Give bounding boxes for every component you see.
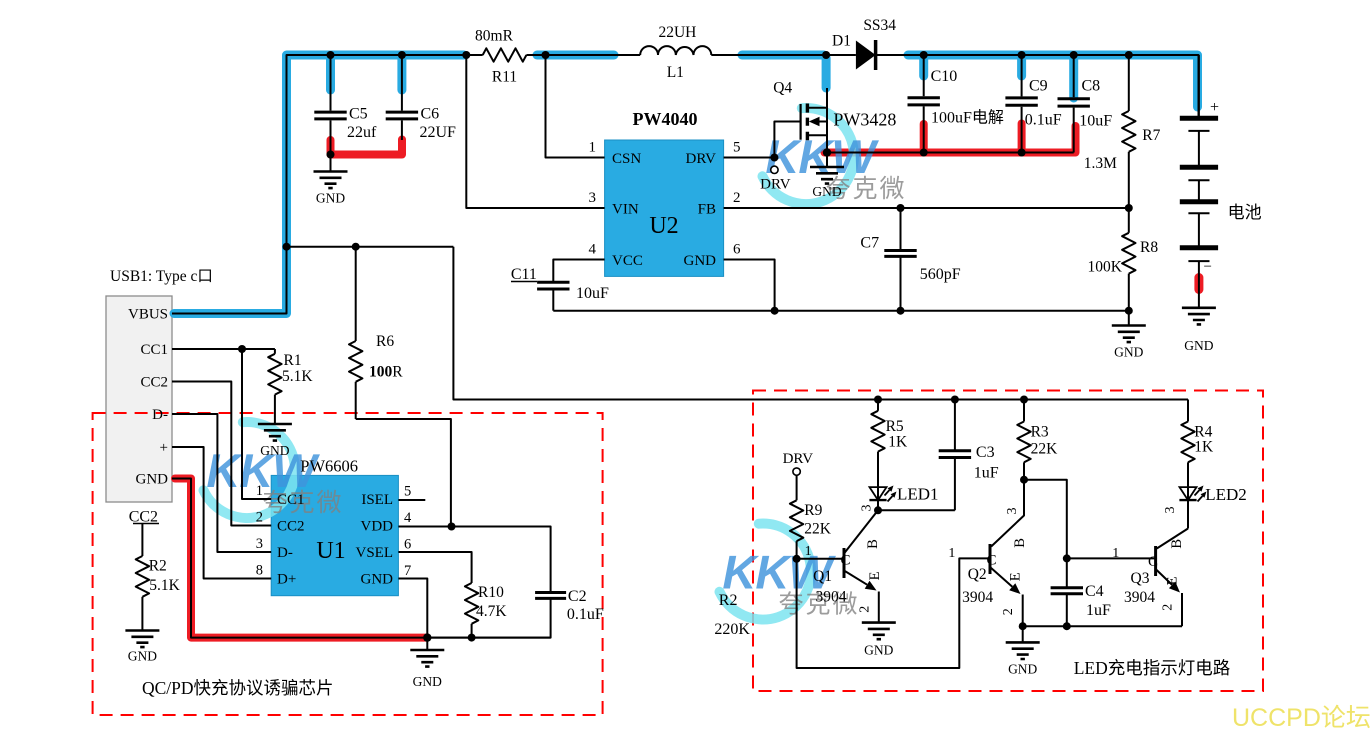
node R7 rail junction: [1125, 51, 1133, 59]
svg-text:C7: C7: [860, 235, 879, 252]
svg-text:CC2: CC2: [140, 375, 168, 391]
svg-text:C8: C8: [1082, 78, 1101, 95]
wire Q4 source to C8 ground rail highlight (red): [825, 124, 1076, 153]
resistor R6 100R: [349, 247, 403, 419]
svg-text:FB: FB: [698, 202, 716, 218]
svg-text:3904: 3904: [1124, 589, 1155, 606]
capacitor C9: [1005, 55, 1061, 153]
capacitor C4 1uF: [1051, 558, 1111, 626]
svg-text:2: 2: [733, 190, 741, 206]
ground GND below Q1: [862, 623, 896, 658]
pin number 3 of U1: [256, 536, 263, 552]
svg-text:4.7K: 4.7K: [476, 603, 507, 620]
IC U2 body PW4040: [605, 140, 724, 276]
svg-text:VBUS: VBUS: [128, 307, 168, 323]
wire Q1 base down to Q2 base: [797, 558, 990, 668]
label battery 电池: [1228, 203, 1262, 222]
svg-text:Q1: Q1: [813, 568, 832, 585]
IC U2 labels: [612, 109, 716, 269]
svg-text:GND: GND: [128, 649, 157, 664]
resistor R7: [1084, 55, 1161, 208]
dashed box LED indicator section: [753, 391, 1263, 692]
svg-text:CC2: CC2: [277, 519, 305, 535]
svg-text:R2: R2: [719, 592, 738, 609]
pin number 3 of Q2: [1005, 508, 1020, 515]
resistor R10 4.7K: [465, 583, 507, 638]
wire U1 gnd stub: [426, 638, 428, 650]
label R2 220K: [714, 592, 750, 638]
wire C10 top stub highlight: [919, 57, 928, 76]
wire USB GND to U1 GND highlight (red): [175, 479, 426, 638]
wire C5-C6 ground highlight (red): [331, 140, 403, 155]
wire Q2 emitter gnd stub: [1022, 626, 1024, 642]
label QC/PD section: [142, 678, 334, 698]
node Q1 base junction: [793, 555, 801, 563]
node Q4 drain rail junction: [822, 51, 830, 59]
svg-text:220K: 220K: [714, 621, 750, 638]
node R5 top junction: [874, 396, 882, 404]
wire D1 to battery top rail: [876, 55, 1199, 118]
pin number 1 of U1: [256, 483, 263, 499]
ground GND at Q4 source: [810, 167, 844, 199]
svg-text:PW6606: PW6606: [300, 457, 358, 476]
node R6 tap on VBUS wire: [283, 243, 291, 251]
svg-text:1: 1: [1112, 546, 1119, 561]
svg-text:80mR: 80mR: [475, 28, 514, 45]
wire VBUS highlight (blue) from USB to top rail: [174, 55, 464, 314]
label LED indicator section: [1074, 658, 1231, 678]
transistor Q3 3904: [1124, 529, 1188, 627]
capacitor C10: [908, 55, 1004, 153]
capacitor C11: [511, 266, 609, 311]
wire C9 top stub highlight: [1017, 57, 1026, 76]
pin number 1 of Q2: [948, 546, 955, 561]
svg-text:R3: R3: [1031, 424, 1049, 441]
svg-text:+: +: [1210, 99, 1219, 116]
svg-text:C11: C11: [511, 266, 537, 283]
svg-text:B: B: [865, 539, 881, 549]
svg-text:D-: D-: [152, 407, 168, 423]
node R6 top junction: [352, 243, 360, 251]
wire VCC pin4: [553, 260, 604, 283]
svg-text:GND: GND: [413, 674, 442, 689]
node C8 rail junction: [1070, 51, 1078, 59]
resistor R8: [1088, 208, 1159, 311]
svg-text:ISEL: ISEL: [361, 492, 393, 508]
svg-text:7: 7: [404, 563, 411, 579]
svg-text:PW4040: PW4040: [633, 109, 698, 129]
svg-text:2: 2: [1161, 604, 1176, 611]
node Q2 emitter junction: [1019, 622, 1027, 630]
node C6 rail junction: [398, 51, 406, 59]
svg-text:GND: GND: [864, 643, 893, 658]
svg-text:1: 1: [805, 544, 812, 559]
pin number 4 of U1: [404, 510, 412, 526]
svg-text:Q2: Q2: [968, 566, 987, 583]
node CSN rail junction: [542, 51, 550, 59]
svg-text:2: 2: [858, 606, 873, 613]
node R10 bottom junction: [468, 634, 476, 642]
wire ISEL stub: [398, 499, 425, 501]
node C4 top junction: [1063, 554, 1071, 562]
svg-text:6: 6: [404, 537, 411, 553]
wire R3 to C4 top: [1024, 480, 1067, 559]
svg-text:GND: GND: [812, 184, 841, 199]
svg-text:22K: 22K: [1031, 441, 1059, 458]
pin number 3 of Q1: [859, 505, 874, 512]
wire C5 top stub highlight: [326, 57, 335, 90]
svg-text:22K: 22K: [804, 521, 832, 538]
pin number 7 of U1: [404, 563, 411, 579]
resistor R9 22K: [790, 475, 832, 559]
wire top rail highlight after L1: [742, 51, 824, 60]
svg-text:CC1: CC1: [140, 342, 168, 358]
wire CSN branch: [546, 55, 605, 158]
wire C8 top stub highlight: [1069, 57, 1078, 98]
svg-text:VCC: VCC: [612, 253, 643, 269]
USB connector labels: [110, 268, 213, 488]
wire LED1 to C3 bottom: [878, 509, 955, 511]
svg-text:R9: R9: [804, 502, 822, 519]
node C5 ground junction: [327, 151, 335, 159]
svg-text:E: E: [1008, 572, 1024, 581]
svg-text:L1: L1: [667, 64, 684, 81]
wire R8 gnd stub: [1128, 311, 1130, 326]
svg-text:电池: 电池: [1228, 203, 1262, 222]
svg-text:1: 1: [256, 483, 263, 499]
wire battery minus stub highlight (red): [1194, 278, 1203, 290]
wire ground rail under U2: [553, 310, 1129, 312]
svg-text:U2: U2: [649, 213, 678, 239]
svg-text:CSN: CSN: [612, 151, 641, 167]
pin number 3 of Q3: [1163, 507, 1178, 514]
svg-text:+: +: [160, 440, 168, 456]
svg-text:QC/PD快充协议诱骗芯片: QC/PD快充协议诱骗芯片: [142, 678, 334, 698]
svg-text:C6: C6: [421, 106, 440, 123]
wire top rail highlight after R11: [537, 51, 614, 60]
node VDD junction: [448, 523, 456, 531]
wire USB GND net (under red): [172, 479, 551, 638]
svg-text:GND: GND: [136, 472, 169, 488]
diode D1 SS34: [832, 17, 896, 70]
wire Q4 source ground rail (under red): [827, 152, 1074, 154]
wire top rail highlight after D1 to battery: [908, 55, 1198, 107]
svg-text:DRV: DRV: [760, 177, 791, 193]
wire CC1 net: [172, 348, 275, 350]
svg-text:R11: R11: [492, 69, 517, 86]
svg-text:C9: C9: [1029, 78, 1048, 95]
svg-text:C: C: [986, 553, 996, 569]
svg-text:R5: R5: [886, 418, 904, 435]
IC U1 body PW6606: [271, 475, 398, 595]
pin number 1 of U2: [589, 140, 597, 156]
node C10 red rail junction: [920, 149, 928, 157]
node C7 bottom junction: [897, 307, 905, 315]
terminal DRV open circle: [760, 166, 791, 192]
svg-text:1uF: 1uF: [1086, 602, 1111, 619]
svg-text:10uF: 10uF: [576, 285, 609, 302]
LED LED1: [869, 485, 938, 511]
svg-text:R10: R10: [478, 584, 504, 601]
svg-text:10uF: 10uF: [1079, 113, 1112, 130]
svg-text:Q4: Q4: [773, 80, 792, 97]
svg-text:2: 2: [1001, 608, 1016, 615]
svg-text:GND: GND: [1114, 345, 1143, 360]
svg-text:5: 5: [733, 140, 741, 156]
svg-text:SS34: SS34: [863, 17, 896, 34]
wire VDD net to C2: [398, 527, 550, 593]
svg-text:6: 6: [733, 242, 741, 258]
pin number 6 of U2: [733, 242, 741, 258]
svg-text:R8: R8: [1140, 239, 1158, 256]
svg-text:VIN: VIN: [612, 202, 639, 218]
wire Q4 drain stub highlight: [822, 58, 831, 88]
svg-text:5.1K: 5.1K: [149, 577, 180, 594]
svg-text:3: 3: [1163, 507, 1178, 514]
wire CC1 to U1 pin1: [242, 349, 271, 499]
wire VBUS to top rail: [172, 55, 483, 314]
node LED1 cathode junction: [874, 506, 882, 514]
node C7 top junction: [897, 204, 905, 212]
battery cells: [1180, 55, 1219, 308]
wire VBUS to R6 rail: [287, 246, 454, 248]
svg-text:1: 1: [589, 140, 597, 156]
svg-text:560pF: 560pF: [920, 266, 961, 283]
svg-text:DRV: DRV: [783, 451, 814, 467]
svg-text:U1: U1: [316, 538, 345, 564]
svg-text:0.1uF: 0.1uF: [1025, 112, 1062, 129]
svg-text:3904: 3904: [816, 589, 847, 606]
svg-text:3: 3: [859, 505, 874, 512]
wire DRV pin5: [724, 157, 775, 159]
wire bottom net to C2: [427, 598, 550, 637]
svg-text:22uf: 22uf: [347, 124, 377, 141]
svg-text:1: 1: [948, 546, 955, 561]
node DRV junction: [770, 154, 778, 162]
capacitor C5: [314, 55, 377, 155]
svg-text:5: 5: [404, 484, 411, 500]
svg-text:LED2: LED2: [1205, 485, 1247, 504]
node R3 bottom junction: [1020, 476, 1028, 484]
wire VSEL to R10: [398, 552, 471, 583]
wire R6 bottom to U1 VDD: [356, 419, 451, 527]
ground GND below U1: [410, 650, 444, 689]
pin number 2 of U1: [256, 510, 263, 526]
wire D- to U1 pin3: [172, 414, 271, 552]
wire FB net: [724, 207, 1129, 209]
watermark KKW bottom: [720, 524, 860, 620]
svg-text:CC1: CC1: [277, 492, 305, 508]
wire GND pin6: [724, 260, 775, 311]
svg-text:GND: GND: [684, 253, 717, 269]
watermark KKW left: [204, 422, 344, 518]
svg-text:22UF: 22UF: [420, 124, 457, 141]
capacitor C8: [1058, 55, 1113, 153]
svg-text:R7: R7: [1142, 127, 1160, 144]
transistor Q4 PW3428: [773, 80, 896, 168]
pin number 6 of U1: [404, 537, 411, 553]
svg-text:GND: GND: [1008, 661, 1037, 676]
transistor Q1 3904: [797, 510, 883, 622]
svg-text:1K: 1K: [888, 434, 908, 451]
svg-text:R2: R2: [149, 558, 167, 575]
svg-text:3: 3: [256, 536, 263, 552]
watermark UCCPD forum: [1232, 704, 1371, 732]
node FB divider junction: [1125, 204, 1133, 212]
svg-text:GND: GND: [361, 572, 394, 588]
svg-text:VSEL: VSEL: [356, 545, 394, 561]
svg-text:GND: GND: [316, 191, 345, 206]
svg-text:DRV: DRV: [686, 151, 717, 167]
LED LED2: [1179, 485, 1246, 529]
resistor R3 22K: [1017, 422, 1058, 480]
capacitor C6: [386, 55, 456, 141]
ground GND at C5/C6: [314, 172, 348, 206]
node U1 ground junction: [423, 633, 431, 641]
svg-text:Q3: Q3: [1131, 570, 1150, 587]
svg-text:100K: 100K: [1088, 259, 1123, 276]
svg-text:C: C: [1148, 554, 1158, 570]
svg-text:100uF电解: 100uF电解: [931, 109, 1004, 127]
IC U1 labels: [277, 457, 393, 588]
svg-text:3: 3: [589, 190, 597, 206]
wire VBUS branch down to LED rail: [453, 247, 1188, 400]
svg-text:B: B: [1169, 539, 1185, 549]
svg-text:E: E: [1165, 576, 1181, 585]
pin number 1 of Q3: [1112, 546, 1119, 561]
capacitor C2 0.1uF: [535, 588, 604, 623]
svg-text:C: C: [840, 553, 850, 569]
wire GND pin7 to ground: [398, 579, 427, 638]
svg-text:C5: C5: [349, 106, 368, 123]
svg-text:−: −: [1204, 259, 1212, 275]
node pin6 ground junction: [771, 307, 779, 315]
svg-text:GND: GND: [260, 443, 289, 458]
resistor R2 5.1K: [136, 524, 181, 631]
wire CC2 to U1 pin2: [172, 382, 271, 526]
node C3 top junction: [951, 396, 959, 404]
wire C5 gnd stub: [330, 155, 332, 172]
svg-text:0.1uF: 0.1uF: [567, 606, 604, 623]
resistor R11: [475, 28, 526, 86]
resistor R5 1K: [871, 400, 908, 488]
svg-text:C3: C3: [976, 444, 995, 461]
pin number 8 of U1: [256, 563, 263, 579]
node R3 top junction: [1020, 396, 1028, 404]
svg-text:C4: C4: [1085, 583, 1104, 600]
svg-text:D-: D-: [277, 545, 293, 561]
ground GND below Q2: [1006, 642, 1040, 676]
ground GND below battery: [1182, 308, 1216, 353]
transistor Q2 3904: [962, 480, 1028, 627]
dashed box QC/PD decoy section: [93, 413, 603, 715]
node VIN rail junction: [462, 51, 470, 59]
node C5 rail junction: [327, 51, 335, 59]
node C9 red rail junction: [1018, 149, 1026, 157]
svg-text:2: 2: [256, 510, 263, 526]
capacitor C3 1uF: [939, 400, 999, 511]
terminal DRV of LED circuit: [783, 451, 814, 475]
node C10 rail junction: [920, 51, 928, 59]
svg-text:D1: D1: [832, 33, 851, 50]
svg-text:USB1: Type c口: USB1: Type c口: [110, 268, 213, 285]
USB connector USB1 body: [106, 296, 172, 502]
terminal CC2 label: [129, 509, 159, 526]
wire VIN branch: [466, 55, 604, 208]
ground GND below R8: [1112, 326, 1146, 360]
wire R11 to L1: [526, 54, 640, 56]
pin number 3 of U2: [589, 190, 597, 206]
pin number 5 of U1: [404, 484, 411, 500]
pin number 2 of U2: [733, 190, 741, 206]
svg-text:5.1K: 5.1K: [282, 368, 313, 385]
capacitor C7: [860, 208, 960, 311]
svg-text:C10: C10: [931, 68, 958, 85]
svg-text:4: 4: [404, 510, 412, 526]
svg-text:22UH: 22UH: [658, 24, 696, 41]
svg-text:3904: 3904: [962, 589, 993, 606]
node Q4 source red junction: [823, 148, 831, 156]
svg-text:PW3428: PW3428: [833, 110, 896, 130]
svg-text:D+: D+: [277, 572, 296, 588]
resistor R1: [268, 349, 313, 424]
wire L1 to D1: [711, 54, 856, 56]
svg-text:100R: 100R: [369, 364, 403, 381]
resistor R4 1K: [1181, 400, 1214, 488]
wire D+ to U1 pin8: [172, 447, 271, 579]
svg-text:LED1: LED1: [897, 485, 939, 504]
wire C6 top stub highlight: [397, 57, 406, 90]
svg-text:1.3M: 1.3M: [1084, 155, 1117, 172]
svg-text:GND: GND: [1184, 338, 1213, 353]
ground GND below R2: [125, 631, 159, 664]
pin number 4 of U2: [589, 242, 597, 258]
svg-text:E: E: [867, 571, 883, 580]
pin number 1 of Q1: [805, 544, 812, 559]
svg-text:3: 3: [1005, 508, 1020, 515]
svg-text:VDD: VDD: [361, 519, 394, 535]
node CC1 junction: [238, 345, 246, 353]
inductor L1: [640, 24, 711, 81]
svg-text:LED充电指示灯电路: LED充电指示灯电路: [1074, 658, 1231, 678]
svg-text:1K: 1K: [1194, 439, 1214, 456]
svg-text:B: B: [1012, 538, 1028, 548]
node C9 rail junction: [1018, 51, 1026, 59]
wire C4 to Q3 base: [1067, 557, 1156, 559]
svg-text:R1: R1: [284, 352, 302, 369]
pin number 5 of U2: [733, 140, 741, 156]
svg-text:UCCPD论坛: UCCPD论坛: [1232, 704, 1371, 732]
svg-text:8: 8: [256, 563, 263, 579]
node C4 bottom junction: [1063, 622, 1071, 630]
wire emitter bottom rail: [1023, 625, 1182, 627]
svg-text:1uF: 1uF: [974, 465, 999, 482]
wire R3 top stub: [1023, 400, 1025, 422]
svg-text:C2: C2: [568, 588, 587, 605]
watermark KKW top: [763, 108, 907, 204]
wire Q4 gate net: [774, 122, 800, 158]
ground GND below R1: [258, 424, 292, 458]
node R8 bottom junction: [1125, 307, 1133, 315]
svg-text:4: 4: [589, 242, 597, 258]
svg-text:R6: R6: [376, 333, 394, 350]
